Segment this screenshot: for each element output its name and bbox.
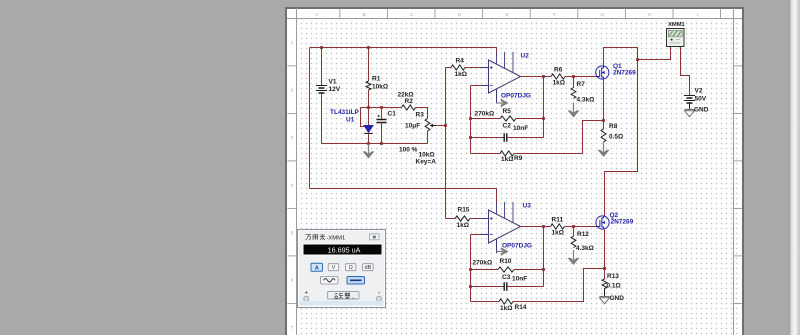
wire: R3 bottom lead to rail <box>427 131 429 144</box>
label R6 <box>554 67 563 74</box>
transistor Q1 2N7269 (NMOS) <box>596 66 609 79</box>
capacitor C2 10nF <box>504 133 507 141</box>
svg-text:R9: R9 <box>514 155 523 162</box>
label R14 <box>515 304 527 311</box>
wire: reference section bottom rail <box>322 143 428 145</box>
wire: XMM1 - to V2 + <box>681 47 690 96</box>
label OP07DJG U2 <box>501 93 531 100</box>
wire: R7 top lead <box>573 77 575 88</box>
label V1 <box>329 79 337 86</box>
wire: U1 cathode lead <box>368 108 370 126</box>
wire: R15 to U3 + input <box>470 218 482 220</box>
svg-text:6: 6 <box>291 278 294 283</box>
svg-text:10nF: 10nF <box>513 125 528 132</box>
junction: R5 right on tap <box>542 117 545 120</box>
op-amp U3 OP07DJG symbol <box>482 202 521 253</box>
label U3 <box>523 203 532 210</box>
wire: feedback to U3 - input <box>471 234 482 236</box>
junction: Q2 source / R13 / R14 <box>603 267 606 270</box>
wire: TL431 REF feedback L <box>361 108 365 127</box>
svg-text:2N7269: 2N7269 <box>613 70 636 77</box>
value 270kOhm R10 <box>473 260 493 267</box>
junction: R10 right on tap <box>542 268 545 271</box>
transistor Q2 2N7269 (NMOS) <box>596 216 609 229</box>
wire: R3 wiper to setpoint column <box>436 125 446 127</box>
svg-text:D: D <box>458 12 462 17</box>
value 4.3kOhm R7 <box>577 97 595 104</box>
resistor R4 1k (horizontal) <box>451 65 465 70</box>
wire: R12 top lead <box>573 227 575 237</box>
wire: R13 top lead <box>604 269 606 280</box>
value Key=A <box>416 159 437 166</box>
junction: C1 bottom on rail <box>380 142 383 145</box>
svg-text:R2: R2 <box>405 98 414 105</box>
label Q1 <box>613 63 622 70</box>
value 1kOhm R6 <box>553 80 565 87</box>
battery V1 12V symbol <box>316 86 327 94</box>
svg-text:1kΩ: 1kΩ <box>500 305 512 312</box>
junction: R1 top on rail <box>367 46 370 49</box>
svg-text:A: A <box>315 12 318 17</box>
svg-text:4.3kΩ: 4.3kΩ <box>577 97 595 104</box>
label C3 <box>502 274 511 281</box>
wire: U3 inverting node vertical <box>470 235 472 302</box>
svg-text:C: C <box>410 12 414 17</box>
svg-text:R13: R13 <box>607 273 619 280</box>
label R9 <box>514 155 523 162</box>
label Q2 <box>610 212 619 219</box>
junction: R10 left <box>469 268 472 271</box>
label TL431ILP <box>330 109 360 116</box>
svg-text:3: 3 <box>291 135 294 140</box>
wire: U2 inverting node vertical <box>470 86 472 154</box>
svg-text:100 %: 100 % <box>399 146 418 153</box>
svg-text:V2: V2 <box>695 87 703 94</box>
value 4.3kOhm R12 <box>576 245 594 252</box>
svg-text:0.5Ω: 0.5Ω <box>609 134 623 141</box>
svg-text:H: H <box>648 12 651 17</box>
svg-text:270kΩ: 270kΩ <box>475 110 495 117</box>
label R12 <box>577 231 589 238</box>
value 270kOhm R5 <box>475 110 495 117</box>
svg-text:10kΩ: 10kΩ <box>372 83 388 90</box>
svg-text:R6: R6 <box>554 67 563 74</box>
wire: C3 rail right part <box>508 286 544 288</box>
wire: Q2 source down <box>604 230 606 269</box>
junction: feedback tap on output <box>542 75 545 78</box>
readout display <box>303 244 383 256</box>
resistor R2 22k (horizontal) <box>402 105 416 110</box>
svg-text:XMM1: XMM1 <box>668 22 686 28</box>
settings button with CJK <box>328 292 360 300</box>
wire: node to XMM1 + terminal <box>638 48 671 60</box>
svg-text:OP07DJG: OP07DJG <box>502 243 532 250</box>
label C1 <box>388 111 397 118</box>
wire: R13 to ground <box>604 289 606 297</box>
junction: R7 top <box>572 75 575 78</box>
resistor R6 1k (gate) <box>551 74 565 79</box>
wire: cathode node horizontal <box>361 107 402 109</box>
svg-text:OP07DJG: OP07DJG <box>501 93 531 100</box>
svg-text:E: E <box>506 12 509 17</box>
resistor R7 4.3k (vertical) <box>571 88 576 99</box>
svg-text:U1: U1 <box>346 116 355 123</box>
svg-text:V: V <box>332 265 336 271</box>
wire: R14 rail left part <box>471 301 500 303</box>
wire: R10 rail right part <box>514 269 544 271</box>
wire: left loop vertical <box>309 48 311 189</box>
label U1 <box>346 116 355 123</box>
resistor R5 270k (feedback) <box>500 116 516 121</box>
svg-text:1kΩ: 1kΩ <box>552 230 564 237</box>
svg-text:1kΩ: 1kΩ <box>457 222 469 229</box>
wire: R1 top lead <box>368 48 370 82</box>
svg-text:R8: R8 <box>609 123 618 130</box>
wire: R8 top lead <box>603 121 605 130</box>
capacitor C1 10uF (polarized) <box>377 115 387 123</box>
svg-text:1kΩ: 1kΩ <box>501 156 513 163</box>
potentiometer R3 10k body <box>425 119 430 132</box>
resistor R13 0.1 ohm (sense) <box>602 279 607 289</box>
label R7 <box>577 81 586 88</box>
junction: V1+ on top rail <box>320 46 323 49</box>
svg-text:2N7269: 2N7269 <box>611 219 634 226</box>
svg-text:1kΩ: 1kΩ <box>455 71 467 78</box>
ground arrow below R12 <box>568 250 579 265</box>
svg-text:4: 4 <box>291 183 294 188</box>
label XMM1 <box>668 22 686 28</box>
label R5 <box>503 108 512 115</box>
svg-text:...: ... <box>352 295 356 301</box>
svg-text:2: 2 <box>291 88 294 93</box>
junction: R1/U1 node <box>367 106 370 109</box>
wire: output to R11 <box>544 226 551 228</box>
svg-text:R4: R4 <box>456 58 465 65</box>
wire: to R4 <box>446 67 452 69</box>
label R8 <box>609 123 618 130</box>
shunt regulator U1 TL431ILP symbol <box>364 125 374 133</box>
value 10kOhm pot <box>419 152 435 159</box>
label R15 <box>458 207 470 214</box>
svg-text:R1: R1 <box>372 75 381 82</box>
label 2N7269 Q2 <box>611 219 634 226</box>
svg-text:R12: R12 <box>577 231 589 238</box>
resistor R9 1k (current sense feedback) <box>500 151 514 156</box>
label R3 <box>416 112 425 119</box>
wire: feedback tap vertical from U3 output <box>543 227 545 287</box>
wire: R9 rail left part <box>471 153 501 155</box>
svg-text:C1: C1 <box>388 111 397 118</box>
label R11 <box>552 217 564 224</box>
op-amp U2 OP07DJG symbol <box>482 52 521 103</box>
dialog title bar text (CJK drawn as strokes) <box>298 230 385 307</box>
wire: V1+ top rail to U2 V+ pin <box>310 48 497 57</box>
svg-text:U2: U2 <box>521 53 530 60</box>
svg-text:GND: GND <box>610 295 625 302</box>
label 2N7269 Q1 <box>613 70 636 77</box>
value 10kOhm <box>372 83 388 90</box>
wire: C1 bottom lead <box>381 123 383 144</box>
label GND V2 <box>694 106 709 113</box>
value 10nF C3 <box>512 276 527 283</box>
junction: Q1 source / R8 / R9 <box>602 119 605 122</box>
svg-text:Ω: Ω <box>349 265 353 271</box>
label R1 <box>372 75 381 82</box>
svg-text:R14: R14 <box>515 304 527 311</box>
wire: V1- down to reference rail <box>321 94 323 144</box>
value 1kOhm R15 <box>457 222 469 229</box>
wire: R5 rail left part <box>471 118 501 120</box>
junction: drain/XMM1/lower loop node <box>636 58 639 61</box>
wire: R6 to Q1 gate <box>565 76 597 78</box>
value 0.5Ohm R8 <box>609 134 623 141</box>
svg-text:5: 5 <box>291 230 294 235</box>
resistor R1 10k (vertical) <box>366 81 371 90</box>
svg-text:10nF: 10nF <box>512 276 527 283</box>
svg-text:Key=A: Key=A <box>416 159 437 166</box>
resistor R11 1k (gate) <box>551 224 565 229</box>
wire: Q1 source down to sense node <box>603 79 605 121</box>
multimeter XMM1 panel window <box>297 229 386 308</box>
svg-text:B: B <box>363 12 366 17</box>
ground arrow at U3 V- pin <box>497 248 509 256</box>
wire: C3 rail left part <box>471 286 504 288</box>
svg-text:12V: 12V <box>329 86 341 93</box>
value 1kOhm R9 <box>501 156 513 163</box>
svg-text:16.695 uA: 16.695 uA <box>328 246 361 255</box>
wire: XMM1 + lead <box>670 48 672 60</box>
wire: feedback tap vertical from U2 output <box>543 77 545 138</box>
wire: C2 rail left part <box>471 137 504 139</box>
svg-text:GND: GND <box>694 106 709 113</box>
wire: R1 bottom to TL431 cathode node <box>368 90 370 108</box>
value 22kOhm <box>398 91 414 98</box>
value 100% <box>399 146 418 153</box>
value 10uF <box>405 123 420 130</box>
svg-text:4.3kΩ: 4.3kΩ <box>576 245 594 252</box>
multimeter XMM1 instrument icon <box>667 29 685 49</box>
wire: R10 rail left part <box>471 269 499 271</box>
junction: C1 top <box>380 106 383 109</box>
wire: C1 top lead <box>381 108 383 120</box>
svg-text:C3: C3 <box>502 274 511 281</box>
wire: U2 output <box>521 76 544 78</box>
svg-text:+: + <box>305 291 309 297</box>
label U2 <box>521 53 530 60</box>
resistor R8 0.5 ohm (sense) <box>601 129 606 142</box>
value 10nF C2 <box>513 125 528 132</box>
wire: R2 to R3 top <box>416 108 428 119</box>
ground arrow at U2 V- pin <box>497 99 509 107</box>
potentiometer R3 wiper arrow <box>430 124 436 128</box>
svg-text:R5: R5 <box>503 108 512 115</box>
value 1kOhm R4 <box>455 71 467 78</box>
junction: feedback tap on output 2 <box>542 225 545 228</box>
capacitor C3 10nF <box>504 282 507 290</box>
junction: wiper tap on setpoint column <box>444 124 447 127</box>
ground GND below R13 <box>600 297 610 304</box>
svg-text:10μF: 10μF <box>405 123 420 130</box>
svg-text:270kΩ: 270kΩ <box>473 260 493 267</box>
svg-text:R7: R7 <box>577 81 586 88</box>
label R2 <box>405 98 414 105</box>
value 0.1Ohm R13 <box>607 282 621 289</box>
mode buttons A V Ohm dB <box>311 263 373 271</box>
svg-text:C2: C2 <box>503 123 512 130</box>
wire: Q1 drain up and over <box>604 48 638 67</box>
junction: R12 top <box>572 225 575 228</box>
junction: U1 anode on rail <box>367 142 370 145</box>
ground arrow below R8 <box>598 142 609 157</box>
wire: setpoint to R15 <box>446 218 456 220</box>
waveform buttons <box>321 277 339 285</box>
label C2 <box>503 123 512 130</box>
svg-text:R3: R3 <box>416 112 425 119</box>
junction: R5 left <box>469 117 472 120</box>
value 1kOhm R11 <box>552 230 564 237</box>
svg-text:dB: dB <box>364 265 371 271</box>
svg-text:7: 7 <box>291 325 294 330</box>
svg-text:10kΩ: 10kΩ <box>419 152 435 159</box>
resistor R12 4.3k (vertical) <box>571 236 576 248</box>
svg-text:G: G <box>601 12 605 17</box>
svg-text:R10: R10 <box>500 258 512 265</box>
ground GND below V2 <box>685 110 695 117</box>
svg-text:50V: 50V <box>695 96 707 103</box>
value 12V <box>329 86 341 93</box>
svg-text:R11: R11 <box>552 217 564 224</box>
wire: output to R6 <box>544 76 552 78</box>
svg-text:A: A <box>315 265 319 271</box>
wire: bottom rail to U3 V+ pin <box>310 189 497 204</box>
wire: feedback to U2 - input <box>471 85 482 87</box>
label V2 <box>695 87 703 94</box>
battery V2 50V symbol <box>684 96 695 104</box>
value 1kOhm R14 <box>500 305 512 312</box>
wire: setpoint vertical to both amplifier inputs <box>445 68 447 219</box>
svg-text:F: F <box>553 12 556 17</box>
svg-text:-XMM1: -XMM1 <box>327 235 346 241</box>
svg-text:I: I <box>697 12 698 17</box>
label OP07DJG U3 <box>502 243 532 250</box>
wire: U3 output <box>521 226 544 228</box>
svg-text:U3: U3 <box>523 203 532 210</box>
svg-text:R15: R15 <box>458 207 470 214</box>
svg-text:V1: V1 <box>329 79 337 86</box>
wire: R14 to Q2 source sense node <box>513 269 605 302</box>
wire: R5 rail right part <box>516 118 544 120</box>
wire: R9 to Q1 source sense node <box>514 121 604 154</box>
label R10 <box>500 258 512 265</box>
wire: C2 rail right part <box>508 137 544 139</box>
label GND R13 <box>610 295 625 302</box>
label R4 <box>456 58 465 65</box>
svg-text:TL431ILP: TL431ILP <box>330 109 360 116</box>
resistor R15 1k (horizontal) <box>455 216 470 221</box>
ground arrow below U1 <box>363 144 374 159</box>
value 50V <box>695 96 707 103</box>
close button <box>370 234 380 240</box>
wire: loop down to Q2 drain <box>605 60 638 217</box>
svg-text:1: 1 <box>291 40 294 45</box>
wire: V2 - to ground <box>689 104 691 110</box>
wire: R4 to U2 + input <box>465 67 482 69</box>
resistor R14 1k (current sense feedback) <box>499 299 513 304</box>
wire: V1 top lead <box>321 48 323 86</box>
svg-text:1kΩ: 1kΩ <box>553 80 565 87</box>
wire: R11 to Q2 gate <box>565 226 598 228</box>
junction: C2 left <box>469 136 472 139</box>
label R13 <box>607 273 619 280</box>
ground arrow below R7 <box>568 103 579 118</box>
resistor R10 270k (feedback) <box>498 267 514 272</box>
junction: C3 left <box>469 285 472 288</box>
svg-text:0.1Ω: 0.1Ω <box>607 282 621 289</box>
wire: U1 anode lead <box>368 133 370 143</box>
